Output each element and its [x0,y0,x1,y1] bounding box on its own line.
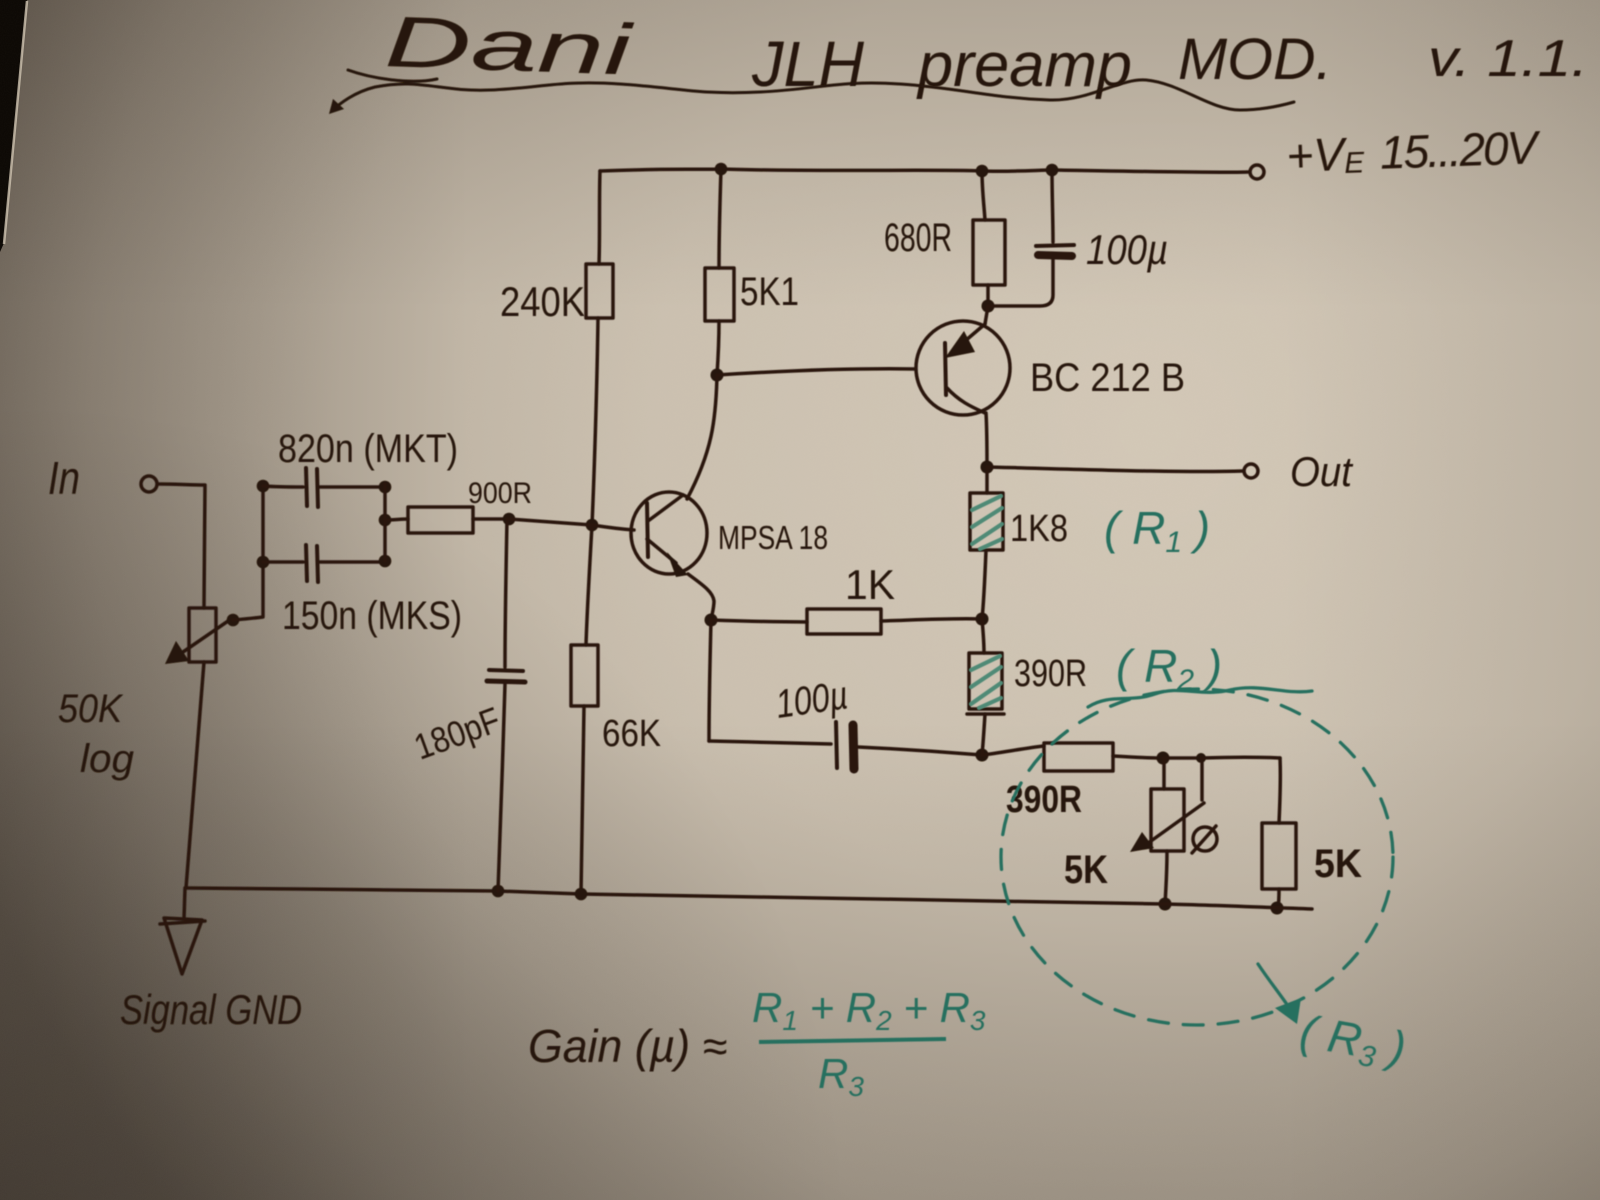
node caps right bottom [379,555,392,568]
wire: 1K to R1/R2 node [881,619,982,621]
node 680R top [976,165,989,178]
transistor Q2 BC212B [916,321,1010,415]
terminal In [141,476,157,492]
wire: 900R to 180p node [473,517,508,521]
node pot top [1157,752,1170,765]
wire: wiper to caps column [233,562,263,620]
svg-text:5K: 5K [1064,848,1108,892]
svg-text:820n (MKT): 820n (MKT) [278,427,458,471]
wire: base node down to 66K [586,525,592,645]
wire: C2 to emitter node [989,259,1053,306]
node 180p tap [503,513,516,526]
wire: corner down to 5K [1279,758,1280,823]
node wiper [227,614,240,627]
capacitor 180pF [505,519,507,667]
svg-text:Signal GND: Signal GND [120,986,302,1033]
resistor 5K (fixed) [1262,823,1296,889]
wire: base wire to BC212B [717,369,915,375]
wire: R1 to 1K node [982,550,986,619]
node BC emitter [982,300,995,313]
node 1K right [976,613,989,626]
wire: ground rail [187,888,1312,909]
resistor 680R [973,220,1005,285]
node 900R tap [379,514,392,527]
node 180p gnd [492,885,505,898]
resistor 900R [408,507,473,533]
wire: to 5K corner [1201,756,1280,760]
svg-text:Out: Out [1290,448,1354,495]
resistor 1K [807,609,881,634]
capacitor 820n MKT [263,486,303,487]
svg-text:100µ: 100µ [1086,226,1168,273]
svg-text:log: log [80,737,134,781]
title underline [329,70,1294,114]
wire: to base node [509,519,634,530]
node R2 bottom [976,749,989,762]
svg-text:In: In [48,452,80,504]
formula bar [759,1039,946,1042]
dark table wedge beyond paper edge, top-left [0,0,27,252]
node 5K bottom [1271,902,1284,915]
wire: node down to MPSA collector [687,375,717,499]
svg-text:MPSA 18: MPSA 18 [718,519,828,556]
wire: pot bottom to rail [1165,851,1167,904]
wire: top rail to 240K [599,171,600,264]
node cap bottom-left [257,556,270,569]
wire: to 900R [385,519,408,520]
wire: In to pot [158,484,205,608]
svg-text:1K: 1K [845,561,895,608]
teal squiggle above ellipse [1088,688,1312,707]
wire: R2 to bottom node [982,714,985,755]
wire: caps right column [383,484,387,561]
wire: MPSA emitter down [688,574,714,620]
svg-text:66K: 66K [602,713,661,755]
terminal Out [1244,464,1258,478]
node pot bottom [1159,898,1172,911]
resistor R1 1K8 [970,493,1003,550]
pot 50K wiper arrow [183,619,231,652]
wire: 5K to rail [1278,889,1279,908]
pot lock symbol [1193,827,1217,851]
ground symbol [164,918,202,974]
potentiometer 50K log [189,608,216,662]
wire: top rail to 680R [982,171,985,220]
svg-text:+VE15...20V: +VE15...20V [1286,121,1543,182]
wire: gnd stem [184,888,185,919]
capacitor C3 100u (electrolytic) [836,722,837,768]
paper edge highlight [4,1,27,244]
node wiper tap [1196,753,1206,763]
node base junction [586,519,599,532]
svg-text:Dani: Dani [383,2,635,91]
svg-text:240K: 240K [500,278,585,325]
wire: 680R to emitter node [986,285,990,305]
svg-text:MOD.: MOD. [1178,27,1332,92]
wire: 390R to pot node [1113,756,1162,758]
wire: 66K to ground rail [581,706,584,894]
wire: +VE top rail [600,169,1248,172]
resistor 240K [586,264,613,318]
R3 dashed ellipse [1001,689,1393,1025]
node Out junction [981,461,994,474]
potentiometer 5K [1151,789,1184,851]
green arrow to R3 [1258,964,1288,1006]
wire: pot top stem [1162,758,1166,789]
resistor R2 390R [969,653,1002,709]
svg-text:5K: 5K [1314,842,1362,886]
node 5K1 top [715,163,728,176]
svg-text:BC 212 B: BC 212 B [1030,356,1185,400]
node 66K gnd [575,888,588,901]
wire: pot node to wiper node [1163,756,1199,760]
svg-text:50K: 50K [58,687,124,731]
wire: 100u to R2 bottom node [858,747,982,755]
wire: top rail to 5K1 [719,169,721,268]
wire: bottom node to 390R horizontal [982,746,1044,755]
svg-text:( R2 ): ( R2 ) [1116,640,1222,697]
capacitor C2 100u [1036,245,1074,246]
resistor 390R (series) [1044,743,1113,771]
svg-text:1K8: 1K8 [1010,508,1068,550]
hatch R2 [971,656,1001,708]
wire: emitter to 1K [711,620,807,622]
node cap top-left [257,480,270,493]
svg-text:Gain (µ) ≈: Gain (µ) ≈ [528,1020,727,1072]
svg-text:150n (MKS): 150n (MKS) [282,594,462,638]
hatch R1 [972,496,1002,549]
wire: emitter down to 100u [709,620,711,741]
transistor Q1 MPSA18 [631,492,707,574]
resistor 66K [571,645,598,706]
wire: Out [987,467,1243,472]
svg-text:v. 1.1.: v. 1.1. [1428,30,1588,88]
wire: 240K down to base node [592,318,598,525]
svg-text:390R: 390R [1006,779,1082,821]
svg-text:( R1 ): ( R1 ) [1104,502,1210,559]
svg-text:390R: 390R [1014,653,1087,695]
svg-text:900R: 900R [468,477,532,510]
svg-text:5K1: 5K1 [740,270,799,314]
wire: 5K1 down to BC base node [717,321,719,375]
node BC base junction [711,369,724,382]
resistor 5K1 [705,268,734,321]
wire: corner to 100u left plate [709,741,831,744]
pot 5K wiper arrow [1144,803,1204,846]
wire: pot 50K bottom to rail [186,662,204,888]
wire: caps column up [261,486,265,562]
node emitter junction [705,614,718,627]
wire: Out node to R1 [985,467,989,493]
wire: BC emitter lead [985,306,988,324]
node C2 top [1046,164,1059,177]
node caps right top [379,481,392,494]
wire: wiper stem [1200,758,1204,800]
wire: BC collector down to Out node [986,413,987,467]
svg-text:680R: 680R [884,216,952,260]
wire: top rail to C2 [1052,170,1053,242]
capacitor 150n MKS [263,560,303,564]
wire: 1K node to R2 [982,619,984,653]
terminal +VE [1250,165,1264,179]
